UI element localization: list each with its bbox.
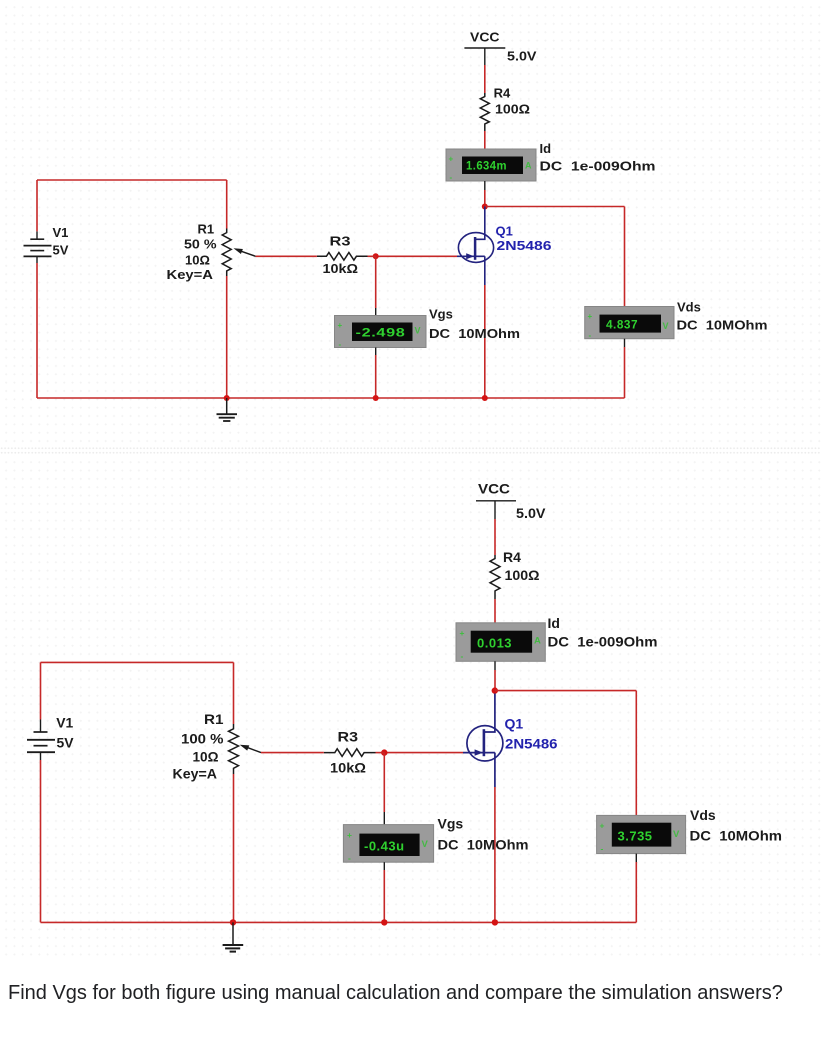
label Vgs / DC 10MOhm (bottom) bbox=[438, 816, 529, 853]
svg-text:V: V bbox=[673, 829, 680, 840]
label Vgs / DC 10MOhm (top) bbox=[429, 307, 520, 342]
node source-rail junction dot (bottom) bbox=[492, 919, 498, 925]
wire right rail down to Vds meter (bottom) bbox=[635, 691, 637, 816]
svg-text:5V: 5V bbox=[53, 243, 69, 258]
wire V1 top to rail (top) bbox=[36, 180, 38, 231]
question text bbox=[8, 982, 821, 1005]
wire gate (bottom): R3 junction to gate bbox=[384, 752, 463, 754]
svg-text:5V: 5V bbox=[57, 735, 75, 751]
wire source to bottom rail (bottom) bbox=[494, 787, 496, 922]
battery V1 (top, 5V) bbox=[24, 225, 69, 263]
svg-text:2N5486: 2N5486 bbox=[505, 736, 558, 752]
node drain (top) junction dot bbox=[482, 204, 488, 210]
wire Vgs meter drop (top) bbox=[375, 256, 377, 316]
svg-text:DC 10MOhm: DC 10MOhm bbox=[438, 837, 529, 853]
svg-text:DC 1e-009Ohm: DC 1e-009Ohm bbox=[548, 634, 658, 650]
label Vds / DC 10MOhm (top) bbox=[677, 300, 768, 333]
bottom rail wire (bottom circuit) bbox=[41, 921, 637, 923]
resistor R3 (top, 10k) bbox=[317, 234, 368, 277]
svg-text:100Ω: 100Ω bbox=[505, 567, 540, 583]
svg-text:+: + bbox=[347, 830, 352, 840]
svg-text:R4: R4 bbox=[494, 86, 511, 101]
svg-text:10kΩ: 10kΩ bbox=[323, 261, 359, 276]
wire Vgs meter to bottom rail (bottom) bbox=[383, 862, 385, 922]
svg-text:10kΩ: 10kΩ bbox=[330, 760, 366, 776]
wire VCC to R4 bbox=[484, 65, 486, 93]
wire R4 to ammeter Id (bottom) bbox=[494, 599, 496, 624]
svg-text:+: + bbox=[600, 821, 605, 831]
svg-text:4.837: 4.837 bbox=[606, 318, 638, 332]
node gate junction dot (bottom) bbox=[381, 749, 387, 755]
svg-text:A: A bbox=[534, 636, 541, 647]
svg-text:V: V bbox=[663, 321, 669, 331]
resistor R4 (bottom, 100 Ohm) bbox=[490, 549, 540, 599]
wire wiper to R3 (top) bbox=[256, 255, 317, 257]
wire R1 bottom to rail (bottom) bbox=[233, 774, 235, 922]
wire V1 top to rail (bottom) bbox=[40, 662, 42, 719]
node R1-rail junction dot (top) bbox=[224, 395, 230, 401]
wire top rail down to potentiometer R1 (top) bbox=[226, 180, 228, 229]
svg-text:0.013: 0.013 bbox=[477, 636, 512, 651]
node Vgs-rail junction dot (top) bbox=[373, 395, 379, 401]
wire V1 bottom to rail (top) bbox=[36, 263, 38, 398]
svg-text:2N5486: 2N5486 bbox=[497, 238, 552, 253]
svg-text:R4: R4 bbox=[503, 549, 521, 565]
label Vds / DC 10MOhm (bottom) bbox=[690, 807, 783, 844]
svg-text:50 %: 50 % bbox=[184, 237, 217, 252]
svg-text:VCC: VCC bbox=[478, 481, 510, 497]
wire ammeter to drain node (bottom) bbox=[494, 661, 496, 690]
wire drain node to right rail bbox=[485, 206, 625, 208]
svg-text:3.735: 3.735 bbox=[618, 829, 653, 844]
resistor R4 (top, 100 Ohm) bbox=[480, 86, 530, 132]
potentiometer R1 (bottom, 100% 10 Ohm Key=A) bbox=[173, 711, 262, 782]
transistor Q1 2N5486 (bottom JFET) bbox=[463, 694, 503, 788]
svg-text:Vgs: Vgs bbox=[438, 816, 464, 832]
svg-text:Vds: Vds bbox=[690, 807, 716, 823]
wire right rail down to Vds meter bbox=[624, 207, 626, 308]
voltmeter Vgs (bottom) value -0.43u bbox=[343, 825, 433, 863]
svg-text:V1: V1 bbox=[56, 715, 73, 731]
wire top rail down to potentiometer R1 (bottom) bbox=[233, 662, 235, 724]
wire Vgs meter to bottom rail (top) bbox=[375, 348, 377, 399]
svg-text:-: - bbox=[589, 331, 592, 340]
wire ammeter to drain node bbox=[484, 181, 486, 207]
label Id / DC 1e-009Ohm (bottom) bbox=[548, 615, 658, 650]
svg-text:-: - bbox=[339, 340, 342, 349]
svg-text:5.0V: 5.0V bbox=[507, 49, 537, 64]
svg-text:-: - bbox=[601, 844, 604, 854]
node Vgs-rail junction dot (bottom) bbox=[381, 919, 387, 925]
svg-text:Vgs: Vgs bbox=[429, 307, 453, 322]
svg-text:V1: V1 bbox=[53, 225, 69, 240]
wire Vds meter to bottom rail (bottom) bbox=[635, 854, 637, 923]
wire top rail (top circuit) bbox=[37, 179, 227, 181]
transistor Q1 2N5486 (top JFET) bbox=[457, 207, 494, 286]
wire VCC to R4 (bottom) bbox=[494, 519, 496, 555]
svg-text:R3: R3 bbox=[330, 234, 351, 249]
wire Vds meter to bottom rail bbox=[624, 339, 626, 398]
svg-text:100 %: 100 % bbox=[181, 731, 224, 747]
svg-text:-: - bbox=[450, 173, 453, 182]
label Q1 2N5486 (bottom) bbox=[505, 716, 558, 752]
wire R1 bottom to rail (top) bbox=[226, 276, 228, 398]
voltmeter Vds (bottom) value 3.735 bbox=[597, 815, 686, 853]
power symbol VCC (bottom circuit) bbox=[476, 481, 546, 522]
resistor R3 (bottom, 10k) bbox=[324, 729, 376, 776]
wire drain node to right rail (bottom) bbox=[495, 690, 637, 692]
svg-text:5.0V: 5.0V bbox=[516, 505, 546, 521]
svg-text:100Ω: 100Ω bbox=[495, 102, 530, 117]
svg-text:R1: R1 bbox=[198, 222, 215, 237]
svg-text:-: - bbox=[348, 853, 351, 863]
svg-text:V: V bbox=[415, 326, 421, 336]
label Id / DC 1e-009Ohm bbox=[540, 141, 656, 174]
svg-text:10Ω: 10Ω bbox=[185, 253, 210, 268]
node R1-rail junction dot (bottom) bbox=[230, 919, 236, 925]
ammeter Id (bottom) value 0.013 bbox=[456, 623, 545, 662]
svg-text:Key=A: Key=A bbox=[167, 267, 214, 282]
svg-text:-0.43u: -0.43u bbox=[364, 839, 405, 854]
svg-text:Q1: Q1 bbox=[505, 716, 524, 732]
wire R4 to ammeter Id bbox=[484, 131, 486, 150]
voltmeter Vds (top) value 4.837 bbox=[585, 307, 674, 341]
ground (bottom circuit) bbox=[223, 922, 244, 951]
svg-text:Key=A: Key=A bbox=[173, 766, 218, 782]
svg-text:Q1: Q1 bbox=[496, 224, 513, 239]
wire R3 to gate node bbox=[368, 255, 376, 257]
potentiometer R1 (top, 50% 10 Ohm Key=A) bbox=[167, 222, 256, 283]
svg-text:Id: Id bbox=[540, 141, 552, 156]
svg-text:Id: Id bbox=[548, 615, 560, 631]
svg-text:V: V bbox=[422, 839, 429, 850]
svg-text:10Ω: 10Ω bbox=[193, 749, 219, 765]
svg-text:-: - bbox=[461, 651, 464, 661]
svg-text:1.634m: 1.634m bbox=[466, 159, 507, 173]
svg-text:Vds: Vds bbox=[677, 300, 701, 315]
svg-text:A: A bbox=[525, 161, 532, 171]
ammeter Id (top) value 1.634m bbox=[446, 149, 536, 182]
svg-text:-2.498: -2.498 bbox=[356, 326, 406, 340]
svg-text:+: + bbox=[449, 155, 454, 164]
svg-text:+: + bbox=[588, 312, 593, 321]
wire R3 to gate node (bottom) bbox=[376, 752, 385, 754]
wire top rail (bottom circuit) bbox=[41, 661, 234, 663]
svg-text:+: + bbox=[338, 321, 343, 330]
svg-text:DC 1e-009Ohm: DC 1e-009Ohm bbox=[540, 159, 656, 174]
svg-text:DC 10MOhm: DC 10MOhm bbox=[429, 326, 520, 341]
label Q1 2N5486 (top) bbox=[496, 224, 552, 254]
svg-text:DC 10MOhm: DC 10MOhm bbox=[677, 318, 768, 333]
wire wiper to R3 (bottom) bbox=[261, 752, 324, 754]
svg-text:DC 10MOhm: DC 10MOhm bbox=[690, 828, 783, 844]
node drain (bottom) junction dot bbox=[492, 687, 498, 693]
svg-text:+: + bbox=[460, 628, 465, 638]
power symbol VCC (top circuit) bbox=[464, 30, 536, 66]
wire Vgs meter drop (bottom) bbox=[383, 753, 385, 825]
bottom rail wire (top circuit) bbox=[37, 397, 625, 399]
node source-rail junction dot (top) bbox=[482, 395, 488, 401]
node gate junction dot (top) bbox=[373, 253, 379, 259]
wire source to bottom rail (top) bbox=[484, 285, 486, 398]
voltmeter Vgs (top) value -2.498 bbox=[335, 316, 427, 350]
wire V1 bottom to rail (bottom) bbox=[40, 760, 42, 922]
ground (top circuit) bbox=[217, 398, 238, 421]
battery V1 (bottom, 5V) bbox=[27, 715, 74, 761]
svg-text:R3: R3 bbox=[338, 729, 359, 745]
svg-text:R1: R1 bbox=[204, 711, 224, 727]
svg-text:VCC: VCC bbox=[470, 30, 500, 45]
wire gate (top): R3 junction to gate bbox=[376, 255, 457, 257]
